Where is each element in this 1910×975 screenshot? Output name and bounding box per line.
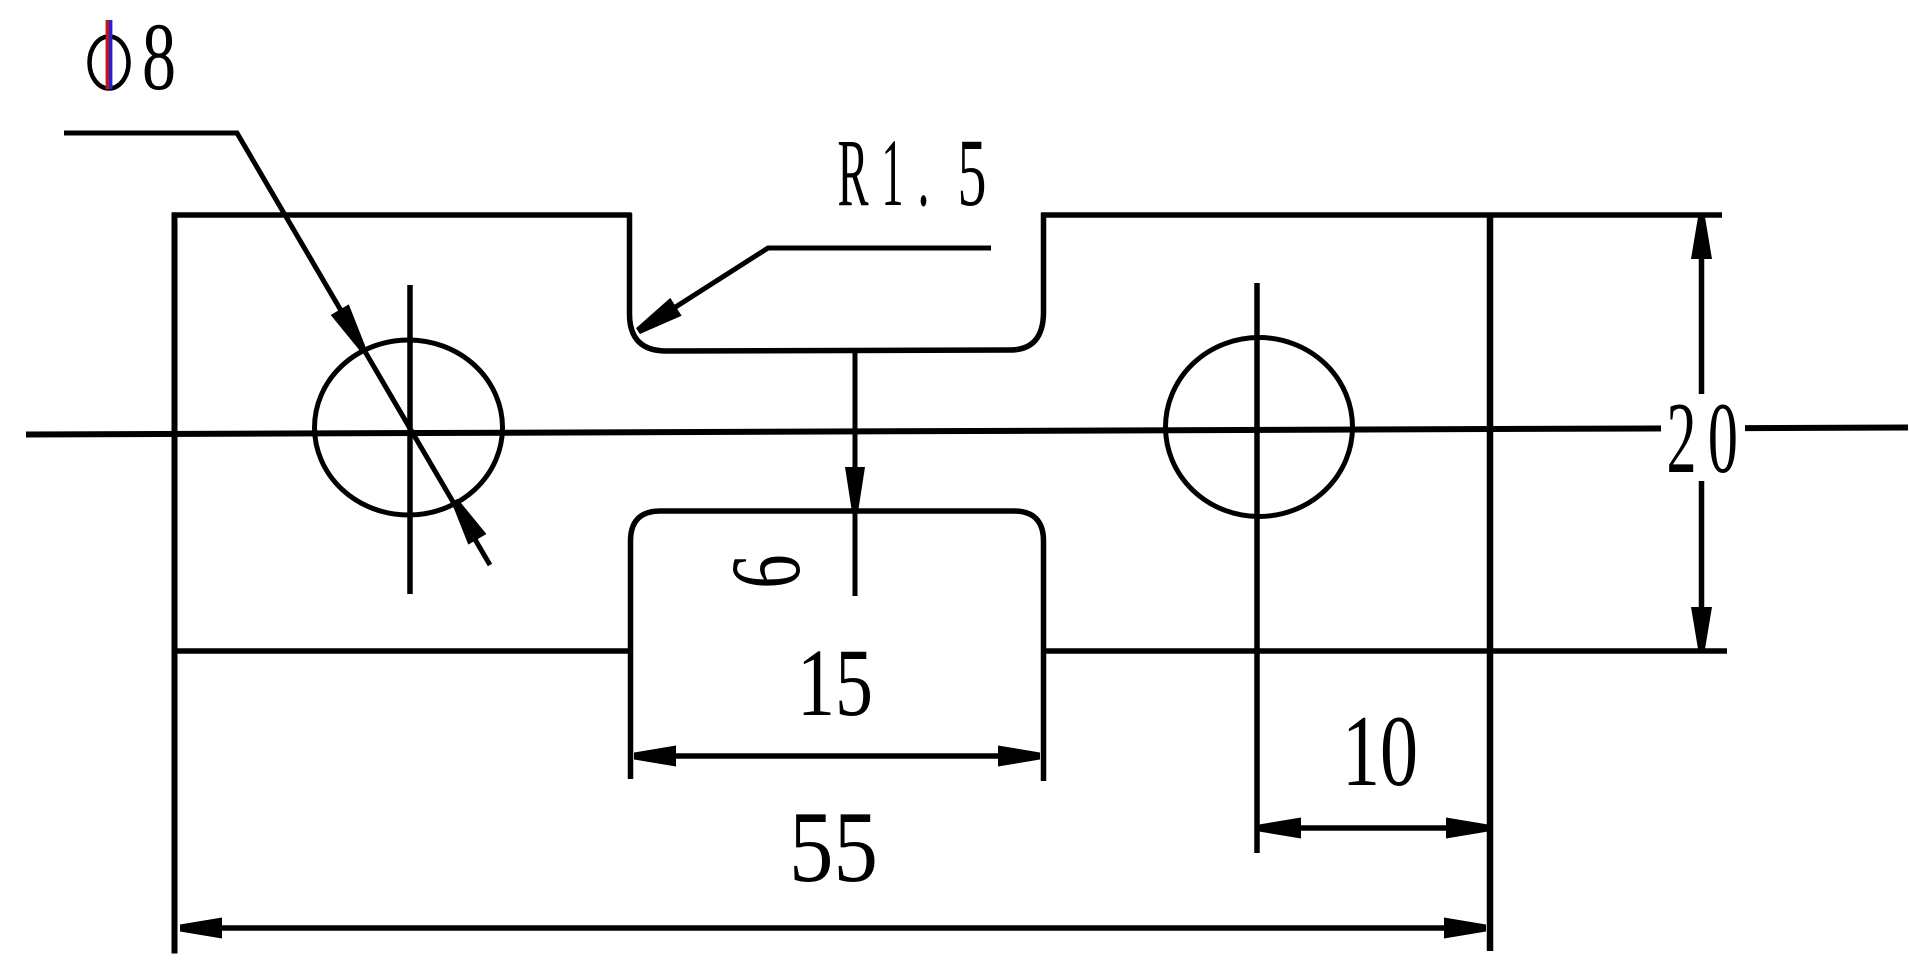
R1.5 leader arrowhead (tip at notch corner, pointing down-left) — [636, 298, 682, 334]
part outline: left edge + 55-dim extension line — [172, 213, 178, 954]
svg-text:1: 1 — [882, 119, 904, 226]
svg-text:55: 55 — [789, 791, 878, 904]
dimension 20 top arrowhead — [1691, 217, 1712, 259]
part outline: bottom edge left segment — [175, 648, 629, 654]
part outline: top edge left segment — [172, 212, 632, 218]
dimension 20 white gap for label — [1661, 394, 1745, 481]
dimension 6 arrowhead (pointing down, tip at slot top) — [845, 467, 865, 509]
svg-text:10: 10 — [1342, 695, 1418, 808]
label φ symbol circle — [90, 37, 129, 89]
dimension 15 right arrowhead — [998, 746, 1040, 767]
dimension 55 left arrowhead — [180, 918, 222, 939]
svg-text:.: . — [918, 119, 930, 226]
dimension 20 line lower segment — [1699, 481, 1705, 649]
label 6 (rotated 90° CCW) — [710, 555, 821, 589]
svg-text:15: 15 — [797, 629, 873, 736]
part outline: bottom edge right segment + 20-dim extension line — [1045, 648, 1727, 654]
dimension 10 right arrowhead — [1446, 818, 1488, 839]
bottom slot outline + 15-dim extension lines — [631, 511, 1044, 781]
hole left (φ8) — [315, 340, 503, 515]
dimension 6 line (notch bottom to slot top) — [853, 351, 858, 596]
dimension 10 left arrowhead — [1259, 818, 1301, 839]
label 20 — [1667, 382, 1738, 495]
vertical centerline left hole — [407, 285, 413, 594]
dimension 15 line — [634, 753, 1040, 759]
horizontal centerline — [26, 428, 1908, 435]
dimension 20 bottom arrowhead — [1691, 607, 1712, 649]
R1.5 leader line — [638, 248, 991, 331]
φ8 leader arrowhead lower (tip at hole edge, pointing up-left) — [452, 499, 487, 545]
label φ8 digit 8 — [142, 3, 176, 110]
label 15 — [797, 629, 873, 736]
svg-text:2: 2 — [1667, 382, 1697, 495]
svg-text:R: R — [838, 119, 869, 226]
part outline: top notch (R1.5 corners) — [630, 213, 1044, 351]
dimension 55 right arrowhead — [1444, 918, 1486, 939]
φ8 leader arrowhead upper (tip at hole edge, pointing down-right) — [331, 304, 366, 350]
part outline: right edge + extension line — [1487, 213, 1494, 952]
vertical centerline right hole (extends to 10-dim) — [1254, 283, 1260, 853]
dimension 15 left arrowhead — [634, 746, 676, 767]
svg-text:6: 6 — [710, 555, 821, 589]
dimension 20 line upper segment — [1699, 217, 1705, 394]
label 55 — [789, 791, 878, 904]
label R1.5 — [838, 119, 987, 226]
φ8 leader line — [64, 133, 490, 565]
dimension 10 line — [1259, 825, 1488, 831]
label 10 — [1342, 695, 1418, 808]
dimension 55 line — [180, 925, 1486, 931]
svg-text:5: 5 — [958, 119, 987, 226]
svg-text:0: 0 — [1708, 382, 1738, 495]
svg-text:8: 8 — [142, 3, 176, 110]
hole right (φ8) — [1166, 338, 1353, 517]
label φ symbol bar blue half — [109, 20, 112, 89]
label φ symbol bar red half — [106, 20, 109, 89]
part outline: top edge right segment + 20-dim extension line — [1041, 212, 1722, 218]
